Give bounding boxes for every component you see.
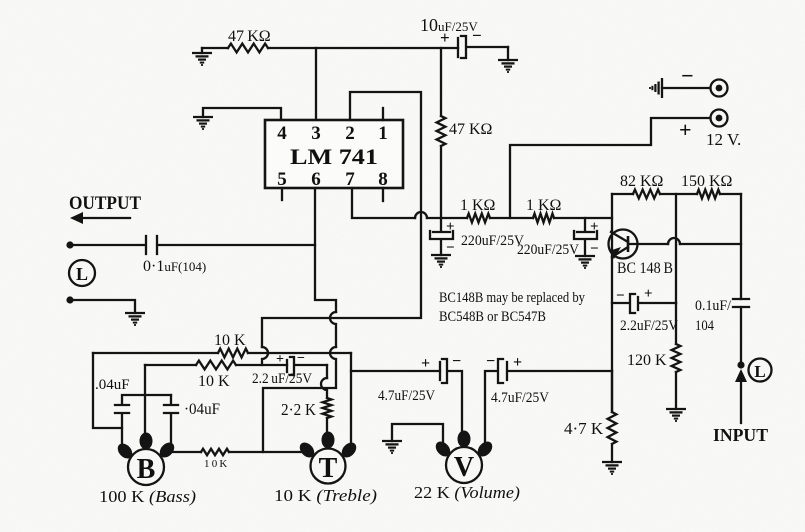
- capacitor 0.1uF(104) output: [70, 236, 315, 254]
- ground G2 wire to pin 4: [203, 108, 281, 120]
- svg-text:L: L: [76, 264, 88, 284]
- svg-text:+: +: [513, 354, 522, 371]
- wire: input vertical: [740, 194, 742, 364]
- capacitor 2.2 uF/25V (tone): [287, 357, 327, 375]
- svg-text:0.1uF/: 0.1uF/: [695, 298, 732, 314]
- resistor 10K (bass-treble): [201, 449, 229, 455]
- svg-text:22 K (Volume): 22 K (Volume): [414, 483, 520, 502]
- node output dot: [66, 241, 73, 248]
- wire: volume ground branch: [392, 424, 443, 447]
- wire: 2.2K vertical with hop: [326, 365, 328, 378]
- wire: tone row2 (10K + 2.2uF): [145, 364, 287, 366]
- wire: collector vertical: [611, 194, 613, 231]
- svg-text:−: −: [616, 288, 625, 304]
- wire: pin3 vertical from top row: [315, 48, 317, 120]
- wire: emitter vertical down: [611, 258, 613, 412]
- resistor 47KOhm (top): [228, 44, 268, 53]
- ground G7: [125, 313, 145, 325]
- resistor 1 KOhm (left): [467, 214, 490, 223]
- capacitor .04uF (right): [164, 395, 178, 444]
- capacitor 220uF/25V (left): [430, 218, 453, 255]
- svg-text:+: +: [644, 286, 653, 302]
- svg-text:.04uF: .04uF: [95, 377, 130, 393]
- svg-text:100 K (Bass): 100 K (Bass): [99, 487, 196, 506]
- svg-text:INPUT: INPUT: [713, 425, 768, 445]
- capacitor 4.7uF/25V (left): [440, 359, 462, 434]
- svg-text:12 V.: 12 V.: [706, 130, 741, 149]
- svg-text:−: −: [452, 353, 461, 370]
- capacitor 220uF/25V (right): [574, 218, 597, 256]
- svg-text:104: 104: [695, 318, 714, 334]
- wire: bass-treble 10K row: [170, 451, 307, 453]
- svg-text:4·7 K: 4·7 K: [564, 419, 604, 438]
- wire: tone row1 (10K to treble top): [93, 352, 351, 354]
- svg-text:1 0 K: 1 0 K: [204, 458, 227, 470]
- ground G8: [382, 441, 402, 453]
- svg-text:1: 1: [378, 123, 388, 144]
- svg-text:10 K: 10 K: [214, 332, 246, 349]
- terminal +12V: [711, 110, 728, 127]
- svg-text:7: 7: [345, 169, 355, 190]
- potentiometer V 22K Volume: [446, 447, 482, 483]
- capacitor 0.1uF/104 (input): [733, 299, 749, 307]
- svg-text:OUTPUT: OUTPUT: [69, 193, 141, 214]
- input arrow: [735, 369, 747, 382]
- svg-text:−: −: [446, 240, 455, 256]
- svg-text:150 KΩ: 150 KΩ: [681, 173, 733, 190]
- svg-text:+: +: [446, 219, 455, 235]
- svg-text:4.7uF/25V: 4.7uF/25V: [378, 388, 435, 404]
- resistor 4.7 K: [611, 371, 613, 412]
- resistor 1 KOhm (right): [533, 214, 554, 223]
- ground G4: [431, 255, 451, 267]
- svg-text:10 K: 10 K: [198, 373, 230, 390]
- wire: row to 4.7uF caps: [351, 370, 440, 372]
- svg-text:·04uF: ·04uF: [184, 401, 220, 418]
- potentiometer T 10K Treble: [311, 449, 346, 484]
- svg-text:+: +: [276, 352, 284, 367]
- svg-text:L: L: [754, 362, 765, 381]
- ground G6 sideways: [650, 78, 662, 98]
- svg-text:−: −: [590, 241, 599, 257]
- wire: pin7 supply rail: [352, 188, 612, 218]
- wire: pin6 down with jog: [315, 188, 336, 312]
- svg-text:47 KΩ: 47 KΩ: [228, 28, 271, 45]
- wire: pin2 feedback loop: [262, 92, 421, 347]
- resistor 150 KOhm: [697, 190, 720, 199]
- svg-text:LM 741: LM 741: [290, 144, 378, 169]
- ground G3 (10uF right): [507, 47, 509, 60]
- svg-text:2: 2: [345, 123, 355, 144]
- svg-text:+: +: [421, 355, 430, 372]
- svg-text:120 K: 120 K: [627, 352, 667, 369]
- resistor 82 KOhm: [633, 190, 660, 199]
- pin 1 stub: [382, 108, 384, 120]
- svg-text:+: +: [590, 219, 599, 235]
- wire: top 47K row: [202, 47, 458, 49]
- svg-text:−: −: [297, 351, 305, 366]
- resistor 10 K row1: [218, 349, 248, 358]
- L circle (output): [69, 260, 95, 286]
- wire: +12V feed: [510, 118, 710, 218]
- svg-text:4: 4: [277, 123, 287, 144]
- wire hop over feedback line: [415, 212, 427, 218]
- svg-text:B: B: [137, 454, 156, 485]
- wire: bass wiper vertical: [144, 365, 146, 436]
- transistor Q1 BC148B: [609, 230, 638, 259]
- svg-text:0·1uF(104): 0·1uF(104): [143, 258, 206, 275]
- svg-text:+: +: [679, 117, 692, 142]
- resistor 10 K row2: [196, 361, 236, 370]
- wire: output ground branch: [66, 296, 73, 303]
- svg-text:2.2uF/25V: 2.2uF/25V: [620, 318, 678, 334]
- svg-text:BC 148 B: BC 148 B: [617, 260, 673, 277]
- terminal -12V: [662, 87, 710, 89]
- op-amp U1 LM741 box: [265, 120, 403, 188]
- wire hop over 676 vertical: [668, 238, 680, 244]
- svg-text:−: −: [681, 63, 694, 88]
- svg-text:4.7uF/25V: 4.7uF/25V: [491, 390, 549, 406]
- svg-text:V: V: [454, 452, 474, 483]
- pin 5 stub: [281, 188, 283, 200]
- ground G1 top-left: [201, 48, 203, 53]
- svg-text:47 KΩ: 47 KΩ: [449, 121, 493, 138]
- svg-text:220uF/25V: 220uF/25V: [517, 242, 579, 258]
- capacitor 2.2uF/25V (emitter): [612, 294, 676, 313]
- potentiometer B 100K Bass: [128, 449, 164, 485]
- svg-text:BC548B or BC547B: BC548B or BC547B: [439, 309, 546, 325]
- wire: row1 right corner down to T right lug: [350, 353, 352, 452]
- resistor 120 K: [675, 303, 677, 409]
- wire: row1 left drop to bass left lug: [93, 353, 122, 428]
- svg-text:2.2 uF/25V: 2.2 uF/25V: [252, 371, 312, 387]
- L circle (input): [749, 359, 772, 382]
- svg-text:220uF/25V: 220uF/25V: [461, 233, 524, 249]
- capacitor .04uF (left): [115, 395, 171, 446]
- capacitor 10uF/25V: [458, 36, 466, 58]
- node input dot: [737, 361, 744, 368]
- svg-text:2·2 K: 2·2 K: [281, 400, 317, 419]
- wire: base lead: [630, 243, 741, 245]
- svg-text:1 KΩ: 1 KΩ: [460, 197, 496, 214]
- wire: vertical to 47K vert resistor: [440, 48, 442, 218]
- svg-text:1 KΩ: 1 KΩ: [526, 197, 562, 214]
- wire: transistor top rail: [612, 193, 741, 195]
- svg-text:10 K (Treble): 10 K (Treble): [274, 486, 377, 505]
- wire: 82K/150K junction vertical: [675, 194, 677, 303]
- svg-text:T: T: [319, 453, 338, 484]
- svg-text:82 KΩ: 82 KΩ: [620, 173, 664, 190]
- output arrow: [82, 217, 130, 219]
- ground G9: [666, 409, 686, 421]
- capacitor 4.7uF/25V (right): [485, 359, 612, 448]
- svg-text:−: −: [486, 353, 495, 370]
- svg-text:3: 3: [311, 123, 321, 144]
- svg-text:BC148B may be replaced by: BC148B may be replaced by: [439, 290, 586, 306]
- resistor 47 KOhm (vertical): [437, 116, 446, 146]
- ground G10: [602, 462, 622, 474]
- ground G5: [575, 256, 595, 268]
- resistor 2.2 K: [323, 398, 332, 418]
- pin 8 stub: [382, 188, 384, 201]
